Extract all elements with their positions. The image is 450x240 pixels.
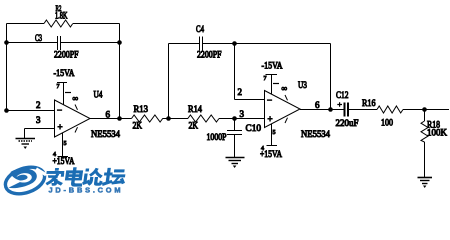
svg-text:3: 3 [240, 109, 245, 119]
wire: C12 to R16 [349, 109, 377, 111]
wire: feedback riser right [330, 44, 332, 110]
svg-text:+: + [58, 122, 63, 132]
resistor R18 [421, 110, 447, 143]
wire: loop1 left riser [6, 24, 8, 111]
svg-text:5: 5 [64, 141, 67, 147]
wire: R14 to C10 node [219, 109, 264, 119]
node: junction dot R13/R14/C4 [166, 116, 171, 121]
wire: R16 to output node [403, 109, 449, 111]
logo: watermark url text JD-BBS.COM [49, 186, 124, 195]
wire: U3 pin2 riser [234, 44, 236, 100]
svg-text:C12: C12 [336, 91, 349, 101]
node: junction dot output / R18 [422, 107, 427, 112]
logo: jd-bbs watermark inner swoosh [9, 168, 37, 188]
logo: watermark chinese text jia dian lun tan [45, 168, 127, 187]
svg-text:U4: U4 [94, 91, 103, 101]
wire: U3 pin2 input [235, 87, 265, 100]
svg-text:−: − [267, 95, 272, 105]
svg-text:7: 7 [264, 76, 267, 82]
wire: R13 to C4 node [163, 118, 188, 120]
svg-text:−: − [57, 105, 62, 115]
ground: under C10 [226, 158, 245, 169]
node: junction dot right riser / C3 [117, 40, 122, 45]
svg-text:NE5534: NE5534 [91, 130, 120, 140]
svg-text:4: 4 [261, 146, 264, 152]
resistor R16 [362, 99, 403, 129]
svg-text:7: 7 [57, 84, 60, 90]
svg-text:+15VA: +15VA [53, 157, 75, 167]
svg-text:C4: C4 [196, 24, 204, 34]
ground: under R18 [418, 178, 433, 189]
svg-text:-15VA: -15VA [54, 69, 75, 79]
svg-text:R14: R14 [188, 105, 202, 115]
svg-text:C3: C3 [35, 33, 42, 43]
svg-text:+: + [268, 114, 273, 124]
wire: R18 to ground [424, 142, 426, 178]
node: junction dot R14/C10/U3 pin3 [232, 116, 237, 121]
svg-text:∞: ∞ [282, 84, 288, 93]
power: U3 +15VA supply [260, 124, 282, 161]
svg-text:2K: 2K [189, 122, 199, 132]
svg-text:∞: ∞ [73, 94, 79, 103]
svg-text:2200PF: 2200PF [197, 50, 222, 60]
svg-text:1.8K: 1.8K [55, 11, 68, 21]
node: junction dot U3 output / feedback riser [328, 107, 333, 112]
wire: U4 pin3 input [25, 115, 55, 138]
svg-text:JD-BBS.COM: JD-BBS.COM [49, 186, 124, 195]
power: U3 -15VA supply [262, 62, 283, 95]
svg-text:100: 100 [381, 119, 393, 129]
svg-text:5: 5 [273, 130, 276, 136]
svg-text:R16: R16 [362, 99, 376, 109]
svg-text:6: 6 [315, 100, 320, 110]
node: junction dot left riser / C3 [4, 40, 9, 45]
logo: jd-bbs watermark swoosh ring [2, 162, 48, 198]
svg-text:2: 2 [36, 100, 41, 110]
wire: loop1 top rail right segment [73, 23, 120, 25]
svg-text:-15VA: -15VA [262, 62, 283, 72]
wire: U4 pin2 input [7, 100, 55, 111]
wire: loop1 top rail left segment [7, 23, 45, 25]
svg-text:2200PF: 2200PF [54, 50, 79, 60]
resistor R2 [44, 3, 73, 27]
svg-text:2: 2 [238, 87, 243, 97]
node: junction dot left riser / pin2 [4, 108, 9, 113]
svg-text:2K: 2K [133, 122, 143, 132]
svg-text:3: 3 [36, 115, 41, 125]
capacitor C3 [7, 33, 120, 60]
svg-text:1000P: 1000P [207, 133, 227, 143]
svg-text:100K: 100K [427, 129, 447, 139]
ground: under U4 pin3 [16, 139, 36, 150]
svg-text:U3: U3 [298, 81, 307, 91]
wire: U3 output to C12 [300, 109, 344, 111]
wire: C4 riser [168, 44, 170, 119]
node: junction dot right riser / U4 output [117, 116, 122, 121]
resistor R14 [188, 105, 219, 132]
power: U4 +15VA supply [53, 133, 75, 168]
svg-text:C10: C10 [246, 124, 262, 134]
svg-text:4: 4 [53, 152, 56, 158]
node: junction dot C4 rail / U3 pin2 riser [232, 41, 237, 46]
svg-text:R13: R13 [134, 105, 149, 115]
svg-text:NE5534: NE5534 [301, 130, 330, 140]
wire: U4 output to R13 [90, 118, 132, 120]
op-amp U3 [265, 81, 331, 140]
capacitor C10 [207, 119, 262, 158]
op-amp U4 [55, 91, 121, 141]
resistor R13 [132, 105, 163, 132]
svg-text:220uF: 220uF [336, 119, 359, 129]
capacitor C12 [336, 91, 359, 129]
power: U4 -15VA supply [54, 69, 75, 105]
wire: loop1 right riser [119, 24, 121, 119]
capacitor C4 [169, 24, 331, 60]
